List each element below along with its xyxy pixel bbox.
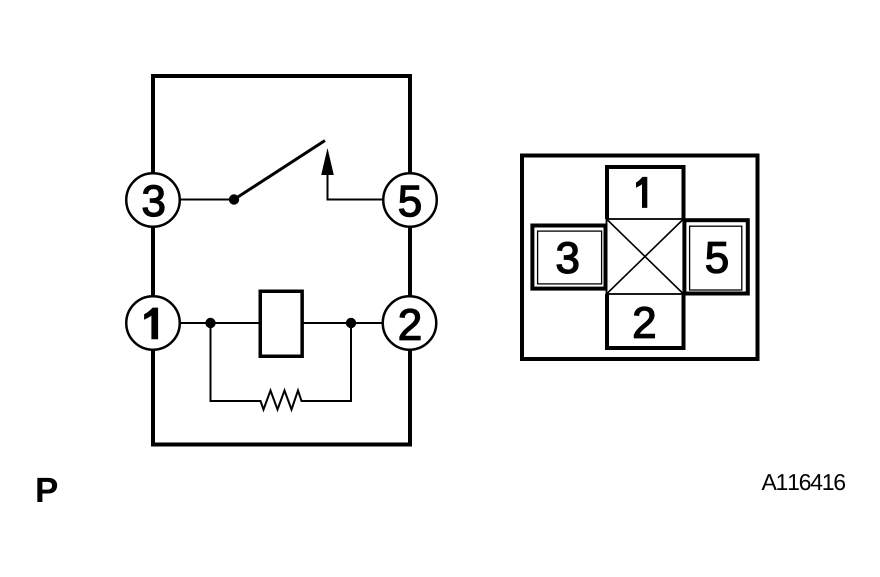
connector pin 1 label [636,177,647,208]
relay coil [260,291,302,356]
position label P [37,478,57,502]
connector pin 5 label [707,242,728,273]
connector pin 3 inner wall [538,231,602,284]
switch throw arrowhead [321,148,334,175]
connector pin 2 cavity [607,294,684,348]
terminal 1 circle [126,296,180,350]
connector body outline [522,156,758,360]
wire: terminal 1 to terminal 2 through coil [153,322,410,324]
resistor branch wire with zigzag resistor [211,323,352,410]
terminal 3 label [143,185,164,216]
connector pin 1 cavity [607,167,684,219]
connector center cavity diagonal 2 [607,219,684,294]
terminal 5 circle [383,173,437,227]
junction dot left [205,318,215,328]
wire: terminal 3 to switch contact [153,199,234,201]
connector pin 5 cavity [684,220,747,293]
switch contact junction dot [229,194,239,204]
connector pin 3 label [557,242,578,273]
relay case outline [153,76,410,445]
connector center cavity diagonal 1 [607,219,684,294]
switch blade [234,141,325,200]
terminal 2 label [400,309,420,340]
terminal 3 circle [126,173,180,227]
figure number A116416 [762,474,846,490]
terminal 5 label [400,186,421,217]
junction dot right [346,318,356,328]
terminal 1 label [144,308,158,340]
connector center cavity [607,219,684,294]
connector pin 2 label [634,307,654,338]
terminal 2 circle [383,296,437,350]
wire: terminal 5 to switch throw [328,174,383,200]
connector pin 3 cavity [532,226,605,289]
connector pin 5 inner wall [690,226,742,290]
